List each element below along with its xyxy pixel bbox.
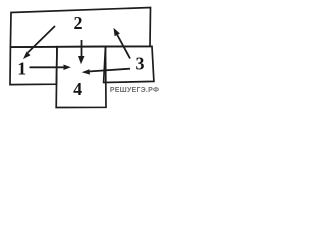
right arrow from 1 into box 4 xyxy=(30,65,71,71)
svg-text:1: 1 xyxy=(17,59,26,79)
svg-text:РЕШУЕГЭ.РФ: РЕШУЕГЭ.РФ xyxy=(110,87,159,94)
box 1 (left room) xyxy=(10,47,57,85)
diagonal arrow B: from 3 up into top rect xyxy=(114,28,131,59)
svg-text:2: 2 xyxy=(74,13,83,33)
top rectangle (room 2) xyxy=(10,8,150,48)
svg-text:4: 4 xyxy=(73,79,82,99)
diagonal arrow A: from top rect into box 1 xyxy=(23,26,55,59)
box 3 (right room) xyxy=(104,46,154,82)
left arrow from 3 into box 4 xyxy=(82,69,130,75)
down arrow from 2 into box 4 xyxy=(78,40,85,64)
box 4 (center tall room) xyxy=(56,46,106,107)
svg-text:3: 3 xyxy=(136,54,145,74)
